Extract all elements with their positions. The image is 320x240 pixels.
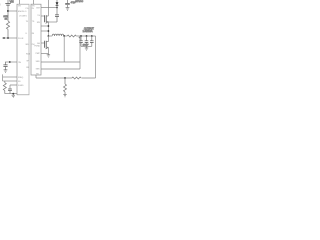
svg-text:VIN: VIN [10, 1, 14, 4]
resistor R1 [6, 12, 9, 38]
node A junction dot [7, 10, 9, 12]
node B1 junction dot [3, 37, 5, 39]
wire SENSE+ return [41, 68, 80, 70]
node D junction dot [12, 93, 14, 95]
node OUT2 junction dot [86, 35, 88, 37]
resistor RS (sense) [67, 35, 76, 37]
svg-text:SGND: SGND [18, 85, 24, 87]
node SW1 junction dot [48, 25, 50, 27]
wire BOOST pin [41, 7, 57, 9]
capacitor CIN (input, top-left) [5, 0, 10, 11]
svg-text:VIN: VIN [18, 6, 21, 8]
node INTVCC label [75, 1, 83, 3]
resistor R1 value label [3, 16, 8, 20]
wire SENSE+ path [79, 36, 81, 69]
wire SENSE- path [41, 36, 80, 62]
inductor L1 [48, 34, 63, 36]
wire net B [2, 37, 17, 39]
wire FREQ pin [3, 76, 17, 78]
node VIN label [10, 1, 14, 4]
node SW2 junction dot [48, 30, 50, 32]
node OUT3 junction dot [91, 35, 93, 37]
wire Q1 drain to VIN top [47, 0, 49, 16]
svg-text:TK: TK [26, 21, 29, 23]
capacitor COUT1 [79, 36, 83, 46]
IC U2 driver box [31, 4, 41, 75]
U1 pin labels [18, 6, 31, 87]
svg-text:SW: SW [37, 22, 40, 24]
wire SS pin [3, 80, 17, 82]
capacitor COUT2 [83, 36, 89, 46]
wire SS cap pin [10, 85, 17, 89]
left edge text fragment [0, 4, 1, 6]
svg-text:PLLIN: PLLIN [18, 38, 24, 40]
svg-text:SNS: SNS [36, 69, 41, 71]
svg-text:MD: MD [26, 44, 30, 46]
ground (C1) [4, 70, 8, 73]
capacitor CB (boost) [55, 5, 59, 22]
transistor Q2 (bottom MOSFET) [41, 41, 48, 49]
svg-text:BST: BST [36, 7, 41, 9]
node OUTPUT label [83, 27, 95, 33]
wire Q2 drain [47, 36, 49, 42]
node OUT1 junction dot [80, 35, 82, 37]
ground (Q2 source) [47, 54, 50, 58]
wire PGND pin [41, 53, 48, 55]
U2 pin labels [32, 6, 41, 76]
wire Q1 source / SW node [47, 22, 49, 36]
svg-text:TG: TG [37, 15, 40, 17]
capacitor C1 [3, 62, 7, 70]
node B2 junction dot [7, 37, 9, 39]
capacitor COUT1 plus sign [79, 37, 81, 39]
node C junction dot [9, 61, 11, 63]
ground (R5) [63, 95, 66, 97]
svg-text:INTVCC: INTVCC [75, 1, 83, 3]
wire COUT ground rail [81, 45, 92, 47]
svg-text:1.5V/15A: 1.5V/15A [83, 30, 93, 33]
diode D1 [56, 0, 59, 5]
wire left rail [2, 74, 4, 81]
resistor R4 (fb top) [72, 77, 81, 79]
svg-text:RUN: RUN [26, 54, 31, 56]
svg-text:PG: PG [26, 8, 29, 10]
node BOOST junction dot [56, 7, 58, 9]
ground (COUT) [85, 46, 88, 50]
wire VOUT rail [76, 35, 95, 37]
wire SW sense pin [41, 30, 48, 32]
node SW3 junction dot [48, 35, 50, 37]
svg-text:FREQ: FREQ [18, 77, 24, 79]
wire L1 to sense [64, 35, 67, 37]
wire U2 VIN feed from top [33, 0, 35, 4]
svg-text:SNS: SNS [36, 61, 41, 63]
node E junction dot [63, 35, 65, 37]
wire SW pin [41, 25, 48, 27]
IC U1 controller box [17, 4, 29, 95]
svg-text:EN/UVLO: EN/UVLO [18, 11, 27, 13]
resistor R3 [3, 81, 6, 94]
wire U1 VIN feed from top [19, 0, 21, 4]
svg-text:IL: IL [26, 33, 28, 35]
svg-text:(: ( [0, 4, 1, 6]
svg-text:SS: SS [18, 81, 21, 83]
resistor R5 (fb bottom) [64, 78, 67, 94]
svg-text:1%: 1% [5, 18, 8, 20]
transistor Q1 (top MOSFET) [41, 15, 48, 23]
capacitor COUT3 [90, 36, 94, 46]
svg-text:PGND: PGND [34, 45, 40, 47]
ground (bottom-left) [12, 94, 15, 98]
wire VFB feedback top [95, 36, 97, 78]
capacitor C2 [8, 89, 12, 94]
node FB junction dot [64, 77, 66, 79]
svg-text:IM: IM [32, 33, 35, 35]
wire Q2 source [47, 47, 49, 53]
svg-text:TS: TS [32, 21, 35, 23]
capacitor C3 (INTVCC bypass) [65, 0, 76, 7]
ground (C3) [66, 8, 70, 11]
wire CB to SW [48, 21, 57, 23]
wire FB line [36, 75, 96, 78]
svg-text:ITH: ITH [18, 62, 22, 64]
wire GND rail bottom-left [5, 93, 17, 95]
svg-text:ITMP: ITMP [35, 53, 40, 55]
wire ITH pin [5, 61, 17, 63]
svg-text:LTC3891: LTC3891 [19, 16, 27, 18]
wire EN pin [8, 10, 17, 12]
svg-text:IN: IN [32, 8, 35, 10]
